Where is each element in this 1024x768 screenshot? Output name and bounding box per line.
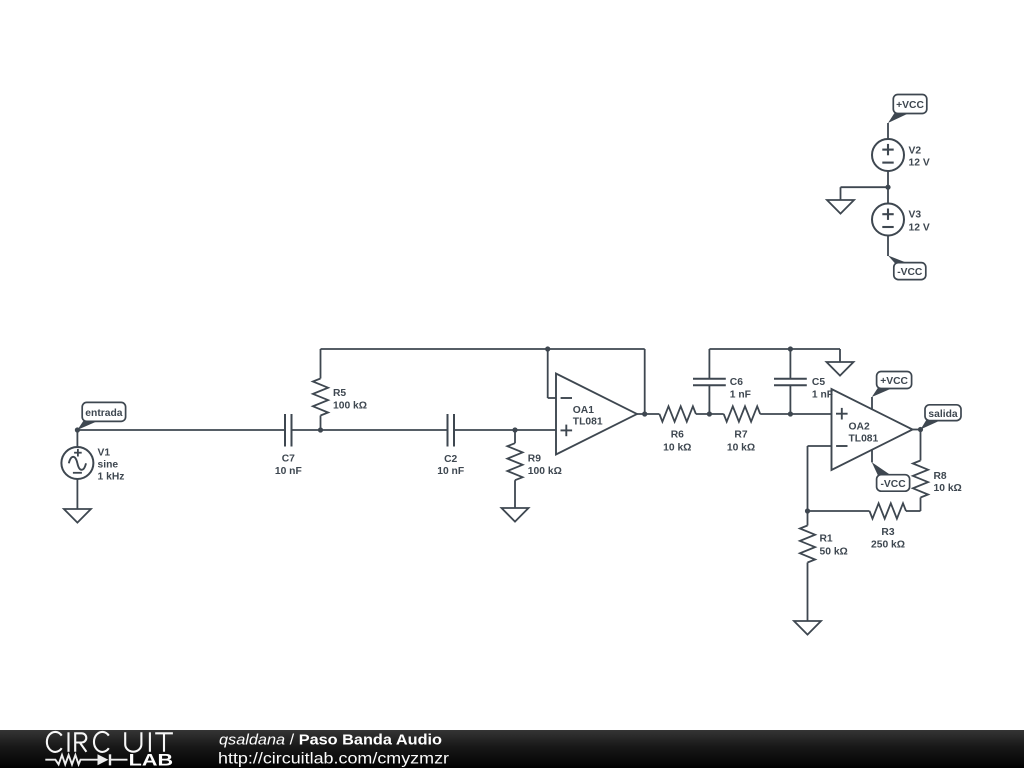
svg-text:C7: C7 — [282, 453, 295, 464]
svg-text:10 nF: 10 nF — [437, 466, 464, 477]
svg-text:LAB: LAB — [129, 751, 173, 768]
svg-text:V2: V2 — [909, 145, 922, 156]
svg-text:1 nF: 1 nF — [812, 390, 833, 401]
svg-text:12 V: 12 V — [909, 157, 930, 168]
svg-text:OA1: OA1 — [573, 405, 594, 416]
svg-text:qsaldana / Paso Banda Audio: qsaldana / Paso Banda Audio — [219, 732, 442, 749]
svg-text:100 kΩ: 100 kΩ — [333, 401, 367, 412]
svg-text:V1: V1 — [98, 447, 111, 458]
svg-text:1 kHz: 1 kHz — [98, 471, 125, 482]
svg-text:C2: C2 — [444, 454, 457, 465]
svg-text:R7: R7 — [734, 430, 747, 441]
svg-text:+VCC: +VCC — [896, 100, 924, 111]
svg-text:C6: C6 — [730, 377, 743, 388]
svg-text:1 nF: 1 nF — [730, 390, 751, 401]
svg-text:10 kΩ: 10 kΩ — [934, 483, 962, 494]
svg-text:V3: V3 — [909, 210, 922, 221]
svg-text:50 kΩ: 50 kΩ — [820, 547, 848, 558]
svg-text:12 V: 12 V — [909, 223, 930, 234]
svg-text:http://circuitlab.com/cmyzmzr: http://circuitlab.com/cmyzmzr — [218, 751, 450, 768]
svg-text:entrada: entrada — [85, 408, 122, 419]
svg-text:-VCC: -VCC — [897, 267, 923, 278]
svg-text:TL081: TL081 — [849, 433, 879, 444]
svg-text:R3: R3 — [881, 527, 894, 538]
svg-text:OA2: OA2 — [849, 422, 870, 433]
svg-text:100 kΩ: 100 kΩ — [528, 466, 562, 477]
svg-text:sine: sine — [98, 459, 119, 470]
svg-text:R6: R6 — [671, 430, 684, 441]
svg-text:10 kΩ: 10 kΩ — [663, 442, 691, 453]
svg-text:10 kΩ: 10 kΩ — [727, 442, 755, 453]
svg-text:R5: R5 — [333, 388, 346, 399]
svg-text:TL081: TL081 — [573, 416, 603, 427]
svg-text:+VCC: +VCC — [880, 376, 908, 387]
svg-text:-VCC: -VCC — [881, 479, 907, 490]
svg-text:250 kΩ: 250 kΩ — [871, 540, 905, 551]
svg-text:R1: R1 — [820, 534, 833, 545]
svg-text:10 nF: 10 nF — [275, 466, 302, 477]
svg-text:R8: R8 — [934, 471, 947, 482]
svg-text:C5: C5 — [812, 377, 825, 388]
svg-text:R9: R9 — [528, 453, 541, 464]
svg-text:salida: salida — [928, 409, 957, 420]
